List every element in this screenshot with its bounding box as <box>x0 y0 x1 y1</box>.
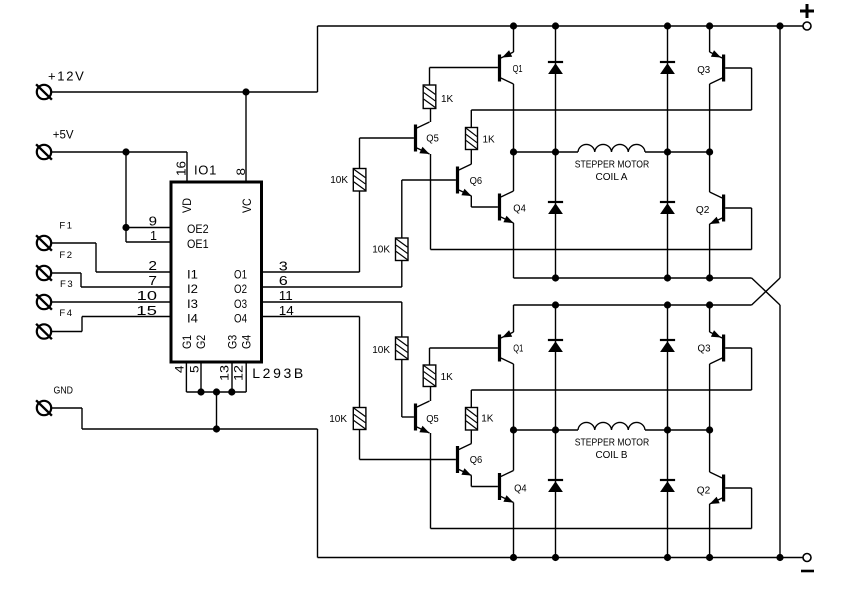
svg-text:13: 13 <box>218 365 232 381</box>
svg-text:G1: G1 <box>182 335 194 349</box>
svg-text:6: 6 <box>279 273 288 288</box>
svg-text:OE1: OE1 <box>187 237 209 251</box>
svg-text:10K: 10K <box>329 414 347 425</box>
svg-text:F3: F3 <box>60 279 74 290</box>
svg-text:I1: I1 <box>187 268 198 282</box>
svg-text:STEPPER MOTOR: STEPPER MOTOR <box>575 160 649 171</box>
svg-text:COIL A: COIL A <box>596 172 628 183</box>
svg-text:3: 3 <box>279 259 288 274</box>
svg-text:Q1: Q1 <box>513 64 523 75</box>
svg-text:14: 14 <box>279 303 294 318</box>
svg-text:1K: 1K <box>441 372 454 383</box>
svg-text:Q2: Q2 <box>697 486 711 497</box>
svg-text:10: 10 <box>137 288 157 303</box>
svg-text:O3: O3 <box>234 297 247 311</box>
svg-text:7: 7 <box>148 273 157 288</box>
svg-text:9: 9 <box>149 214 157 229</box>
svg-text:1K: 1K <box>481 414 494 425</box>
svg-text:F2: F2 <box>59 250 73 261</box>
svg-text:10K: 10K <box>330 175 348 186</box>
svg-text:O2: O2 <box>234 282 247 296</box>
svg-text:1K: 1K <box>441 94 454 105</box>
svg-text:Q3: Q3 <box>697 65 710 76</box>
svg-text:Q6: Q6 <box>470 455 483 466</box>
svg-text:F1: F1 <box>59 221 73 232</box>
svg-text:STEPPER MOTOR: STEPPER MOTOR <box>575 438 649 449</box>
svg-text:1K: 1K <box>483 135 496 146</box>
svg-text:IO1: IO1 <box>194 163 217 178</box>
svg-text:G2: G2 <box>196 335 208 349</box>
svg-text:Q2: Q2 <box>696 205 710 216</box>
svg-text:16: 16 <box>174 161 189 176</box>
svg-text:GND: GND <box>54 386 74 397</box>
svg-text:O1: O1 <box>234 268 247 282</box>
svg-text:I4: I4 <box>187 312 198 326</box>
svg-text:+12V: +12V <box>48 69 86 84</box>
svg-text:I3: I3 <box>187 297 198 311</box>
svg-text:Q1: Q1 <box>513 344 523 355</box>
svg-text:1: 1 <box>150 228 157 243</box>
svg-text:OE2: OE2 <box>187 222 209 236</box>
svg-text:L293B: L293B <box>252 365 305 381</box>
svg-text:O4: O4 <box>234 312 247 326</box>
svg-text:F4: F4 <box>59 308 73 319</box>
svg-text:VC: VC <box>240 198 254 213</box>
svg-text:G3: G3 <box>227 335 239 349</box>
svg-text:Q3: Q3 <box>698 344 711 355</box>
svg-text:Q6: Q6 <box>470 176 483 187</box>
svg-text:2: 2 <box>148 258 157 273</box>
svg-text:I2: I2 <box>187 282 198 296</box>
svg-text:5: 5 <box>187 365 201 373</box>
svg-text:15: 15 <box>136 303 157 318</box>
svg-text:VD: VD <box>180 198 194 213</box>
svg-text:G4: G4 <box>241 334 253 349</box>
svg-text:10K: 10K <box>372 245 390 256</box>
svg-text:11: 11 <box>279 288 293 303</box>
svg-text:10K: 10K <box>372 345 390 356</box>
svg-text:8: 8 <box>234 168 248 176</box>
svg-text:Q4: Q4 <box>514 484 527 495</box>
svg-text:12: 12 <box>232 365 246 381</box>
svg-text:4: 4 <box>172 365 186 373</box>
svg-text:Q5: Q5 <box>426 414 439 425</box>
svg-text:Q5: Q5 <box>426 133 439 144</box>
svg-text:+5V: +5V <box>53 130 74 142</box>
svg-text:COIL B: COIL B <box>596 450 628 461</box>
svg-text:Q4: Q4 <box>513 204 526 215</box>
